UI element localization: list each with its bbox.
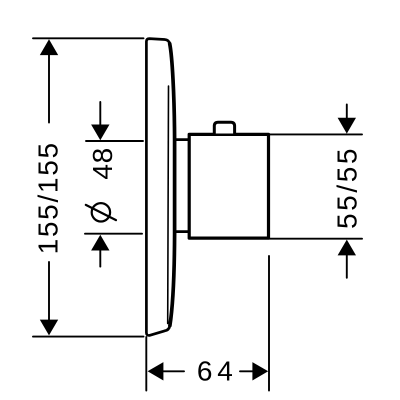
dim 55/55 bottom arrow: [338, 240, 356, 256]
dim 55/55 top arrow: [338, 118, 356, 134]
dim 64 right arrow: [252, 362, 268, 380]
dim diameter-48 upper stem: [99, 102, 101, 126]
dim 155/155 bottom arrow: [40, 320, 58, 336]
svg-text:64: 64: [197, 356, 238, 387]
dim 155/155 bottom extension line: [33, 336, 144, 338]
handle button tab: [214, 122, 234, 133]
dim 64 right line segment: [240, 370, 254, 372]
handle body: [189, 134, 268, 238]
dim diameter-48 top extension line: [86, 140, 143, 142]
svg-text:48: 48: [87, 147, 118, 179]
svg-text:55/55: 55/55: [331, 146, 362, 229]
dim diameter-48 bottom extension line: [85, 233, 142, 235]
dim 55/55 top extension line: [269, 133, 362, 135]
diameter symbol slash: [86, 205, 116, 220]
dim 55/55 upper stem: [346, 105, 348, 121]
svg-text:155/155: 155/155: [33, 141, 64, 254]
escutcheon plate outline: [146, 39, 174, 336]
dim 64 left line segment: [162, 370, 184, 372]
sleeve bottom edge: [176, 230, 190, 233]
diameter symbol circle: [92, 203, 110, 221]
sleeve top edge: [176, 138, 190, 141]
dim diameter-48 bottom arrow: [91, 235, 109, 251]
dim diameter-48 top arrow: [91, 125, 109, 141]
dim 64 left extension line: [145, 337, 147, 391]
dim 155/155 top arrow: [40, 39, 58, 55]
dim 155/155 line upper segment: [48, 53, 50, 123]
dim 155/155 top extension line: [33, 37, 144, 39]
dim 64 left arrow: [148, 362, 164, 380]
dim 64 right extension line: [268, 256, 270, 391]
dim diameter-48 lower stem: [99, 249, 101, 267]
dim 55/55 bottom extension line: [269, 238, 362, 240]
plate face inner line: [167, 86, 170, 324]
dim 155/155 line lower segment: [48, 262, 50, 322]
dim 55/55 lower stem: [346, 254, 348, 278]
plate front face edge: [170, 44, 175, 326]
